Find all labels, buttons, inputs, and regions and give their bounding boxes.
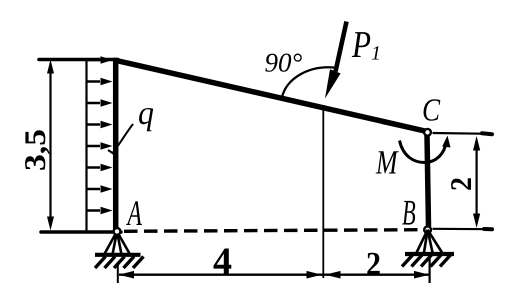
- distributed load arrow 5: [87, 142, 113, 150]
- distributed load arrow 1: [87, 56, 113, 64]
- distributed load arrow 2: [87, 78, 113, 86]
- dimension line 2 (right vertical): [473, 136, 480, 228]
- bottom dim arrows at middle extension: [307, 271, 322, 279]
- vertical extension line under P1: [322, 105, 324, 278]
- top edge line of distributed load: [39, 58, 118, 62]
- bottom dim arrow at A (points left): [119, 271, 135, 279]
- leader line for q: [113, 124, 133, 153]
- dimension label 3,5 (rotated): [25, 130, 50, 170]
- label 90 degrees: [265, 54, 302, 72]
- hinge circle at C: [424, 129, 431, 136]
- left column (member above support A): [113, 58, 119, 231]
- label A: [126, 201, 142, 225]
- distributed load arrow 3: [87, 99, 113, 107]
- pin support B: [402, 230, 454, 267]
- bottom edge line at A level (left): [41, 230, 121, 234]
- dimension label 2 (right, rotated): [451, 178, 471, 190]
- label P1: [352, 32, 370, 57]
- extension line right of C: [433, 132, 492, 135]
- angle arc (90deg between beam and P1): [282, 67, 334, 97]
- label C: [424, 99, 441, 121]
- pin support A: [95, 231, 144, 268]
- label B: [402, 201, 415, 225]
- right column (member C to B): [427, 136, 429, 227]
- extension line below B: [429, 255, 431, 283]
- extension line right of B: [433, 228, 492, 231]
- bottom dimension line: [119, 274, 429, 276]
- label M: [376, 151, 399, 173]
- distributed load left edge line: [85, 59, 87, 232]
- distributed load arrow 8: [87, 207, 113, 215]
- bottom dim arrow at B (points right): [414, 271, 430, 279]
- extension line below A: [117, 264, 119, 283]
- moment M arc with arrowhead: [400, 136, 451, 163]
- inclined beam (top chord from column top to C): [114, 60, 427, 132]
- dimension label 4: [214, 249, 232, 274]
- distributed load arrow 4: [87, 121, 113, 129]
- force P1 arrow: [325, 22, 347, 99]
- distributed load arrow 7: [87, 185, 113, 193]
- hinge circle at A: [114, 228, 121, 235]
- distributed load arrow 6: [87, 164, 113, 172]
- dimension line 3,5 (left vertical): [47, 60, 54, 231]
- label q: [139, 108, 153, 131]
- dimension label 2 (bottom): [367, 253, 379, 275]
- hinge circle at B: [424, 226, 431, 233]
- dashed line A to B: [124, 230, 421, 232]
